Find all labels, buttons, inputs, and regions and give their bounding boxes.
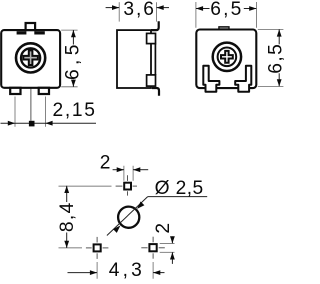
svg-text:6,5: 6,5 [266, 43, 287, 74]
svg-text:6,5: 6,5 [62, 40, 83, 80]
svg-text:Ø 2,5: Ø 2,5 [155, 178, 204, 199]
svg-text:3,6: 3,6 [123, 0, 155, 20]
svg-text:2,15: 2,15 [53, 100, 97, 121]
svg-text:4,3: 4,3 [109, 260, 145, 281]
svg-text:2: 2 [100, 152, 111, 173]
svg-text:6,5: 6,5 [210, 0, 243, 20]
svg-text:2: 2 [153, 223, 174, 234]
svg-text:8,4: 8,4 [57, 201, 78, 232]
